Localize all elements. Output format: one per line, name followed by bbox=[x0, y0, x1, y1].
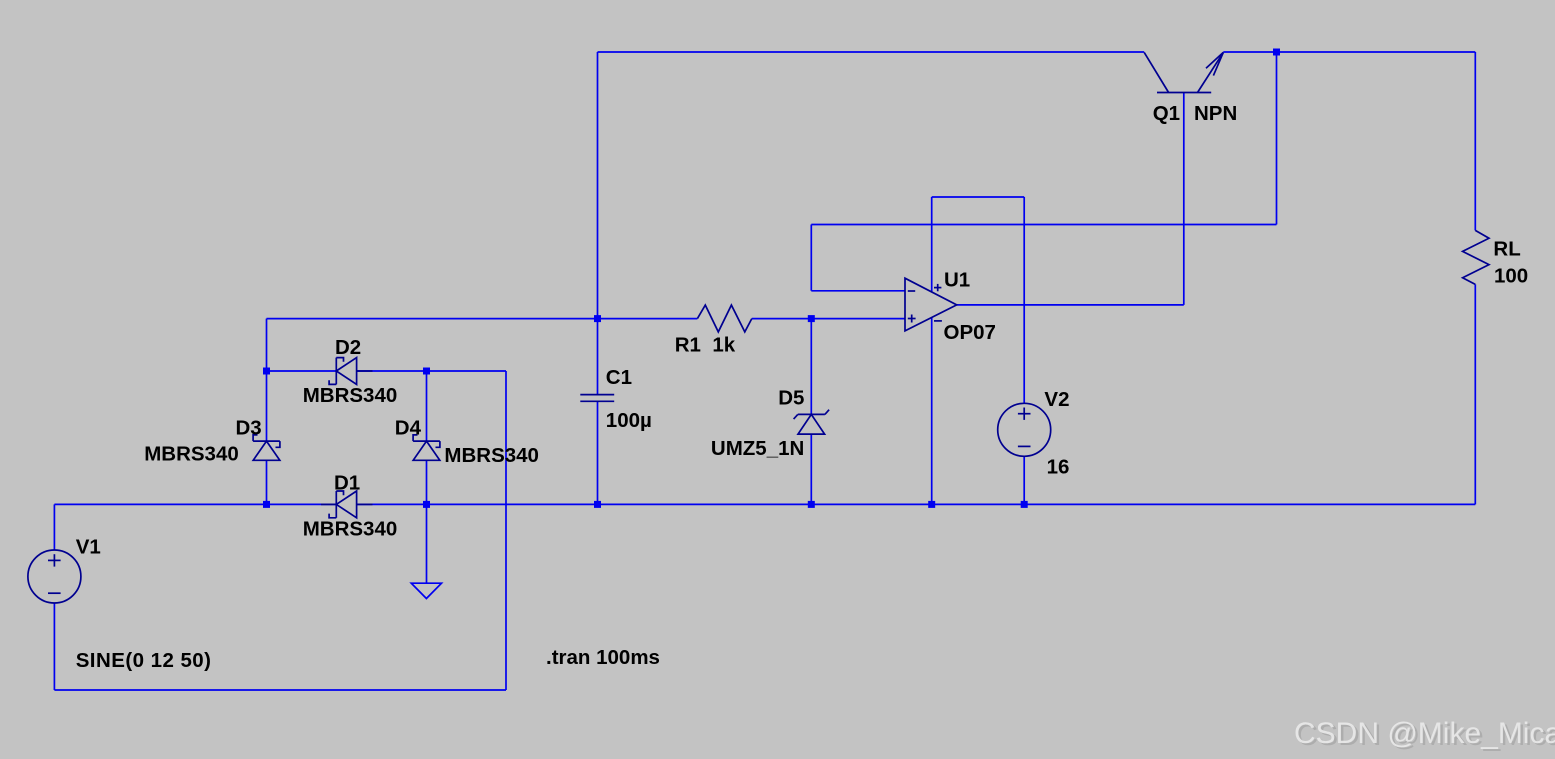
wire C1 bottom lead bbox=[597, 402, 599, 505]
resistor RL bbox=[1463, 230, 1489, 284]
wire RL bottom to rail bbox=[1474, 284, 1476, 504]
wire feedback to emitter node bbox=[1276, 52, 1278, 225]
zener diode D5 bbox=[794, 410, 830, 434]
wire V1 bottom lead bbox=[53, 603, 55, 690]
watermark bbox=[1294, 717, 1555, 752]
svg-text:D5: D5 bbox=[778, 387, 804, 410]
wire V2 bottom lead bbox=[1023, 456, 1025, 504]
svg-text:MBRS340: MBRS340 bbox=[144, 443, 239, 466]
wire D2 row left bbox=[267, 370, 337, 372]
wire bridge left vertical above D3 bbox=[266, 319, 268, 442]
node C1 top bbox=[594, 315, 601, 322]
voltage source V2 bbox=[998, 403, 1051, 456]
wire V1 loop horizontal bbox=[54, 689, 506, 691]
wire base lead bbox=[1183, 93, 1185, 305]
wire bridge right vertical above D4 bbox=[426, 371, 428, 441]
node C1 bottom bbox=[594, 501, 601, 508]
svg-text:UMZ5_1N: UMZ5_1N bbox=[711, 437, 804, 460]
wire feedback horizontal bbox=[811, 224, 1276, 226]
svg-text:U1: U1 bbox=[944, 269, 970, 292]
node V2 bottom bbox=[1021, 501, 1028, 508]
wire supply vertical from C1 node bbox=[597, 52, 599, 319]
op-amp U1 bbox=[905, 278, 957, 331]
svg-text:CSDN @Mike_Mica: CSDN @Mike_Mica bbox=[1294, 717, 1555, 750]
node bridge right mid bbox=[423, 368, 430, 375]
resistor R1 bbox=[697, 305, 751, 332]
wire op-amp output bbox=[957, 304, 1184, 306]
svg-text:16: 16 bbox=[1047, 456, 1070, 479]
svg-text:OP07: OP07 bbox=[944, 321, 996, 344]
wire V+ box top bbox=[932, 196, 1024, 198]
wire top supply horizontal bbox=[598, 51, 1145, 53]
node bridge left mid bbox=[263, 368, 270, 375]
wire op-amp V+ up bbox=[931, 197, 933, 292]
diode D1 bbox=[321, 491, 373, 518]
wire bottom rail left of D1 bbox=[54, 503, 336, 505]
svg-text:D4: D4 bbox=[395, 417, 422, 440]
svg-text:MBRS340: MBRS340 bbox=[303, 518, 398, 541]
node R1-D5 bbox=[808, 315, 815, 322]
svg-text:MBRS340: MBRS340 bbox=[303, 384, 398, 407]
wire right column to RL top bbox=[1474, 52, 1476, 230]
transistor Q1 bbox=[1144, 52, 1223, 92]
node bridge left bottom bbox=[263, 501, 270, 508]
svg-text:D3: D3 bbox=[236, 417, 262, 440]
node D5 bottom bbox=[808, 501, 815, 508]
voltage source V1 bbox=[28, 550, 81, 603]
diode D3 bbox=[253, 435, 280, 460]
svg-text:D1: D1 bbox=[334, 472, 360, 495]
ground bbox=[411, 583, 441, 598]
node emitter top bbox=[1273, 49, 1280, 56]
wire ground stub bbox=[426, 504, 428, 583]
svg-text:R1: R1 bbox=[675, 334, 701, 357]
wire bridge left vertical below D3 bbox=[266, 460, 268, 504]
wire node A line left of R1 bbox=[267, 318, 698, 320]
svg-text:.tran 100ms: .tran 100ms bbox=[546, 646, 660, 669]
svg-text:SINE(0 12 50): SINE(0 12 50) bbox=[76, 649, 212, 672]
svg-text:100µ: 100µ bbox=[606, 409, 652, 432]
svg-text:Q1: Q1 bbox=[1153, 102, 1180, 125]
svg-text:D2: D2 bbox=[335, 336, 361, 359]
node opamp V- bottom bbox=[928, 501, 935, 508]
svg-text:NPN: NPN bbox=[1194, 102, 1237, 125]
wire D5 top lead bbox=[810, 319, 812, 415]
wire emitter to right edge bbox=[1223, 51, 1475, 53]
diode D2 bbox=[329, 358, 372, 385]
svg-text:C1: C1 bbox=[606, 366, 632, 389]
svg-text:1k: 1k bbox=[712, 334, 735, 357]
svg-text:100: 100 bbox=[1494, 264, 1528, 287]
svg-text:V2: V2 bbox=[1044, 388, 1069, 411]
wire V1 top lead bbox=[53, 504, 55, 550]
svg-text:MBRS340: MBRS340 bbox=[444, 444, 539, 467]
wire node line right of R1 bbox=[752, 318, 905, 320]
wire bottom rail right of D1 bbox=[357, 503, 1476, 505]
wire V2 top lead bbox=[1023, 197, 1025, 403]
wire D2 row right bbox=[357, 370, 506, 372]
svg-text:RL: RL bbox=[1493, 238, 1520, 261]
wire bridge right vertical below D4 bbox=[426, 460, 428, 504]
node bridge right bottom bbox=[423, 501, 430, 508]
wire C1 top lead bbox=[597, 319, 599, 395]
wire V1 loop vertical bbox=[505, 371, 507, 690]
capacitor C1 bbox=[580, 395, 614, 402]
wire op-amp V- down bbox=[931, 318, 933, 505]
wire feedback vertical short bbox=[810, 225, 812, 291]
wire D5 bottom lead bbox=[810, 434, 812, 504]
diode D4 bbox=[413, 435, 440, 460]
svg-text:V1: V1 bbox=[76, 536, 101, 559]
wire inverting input bbox=[811, 290, 905, 292]
